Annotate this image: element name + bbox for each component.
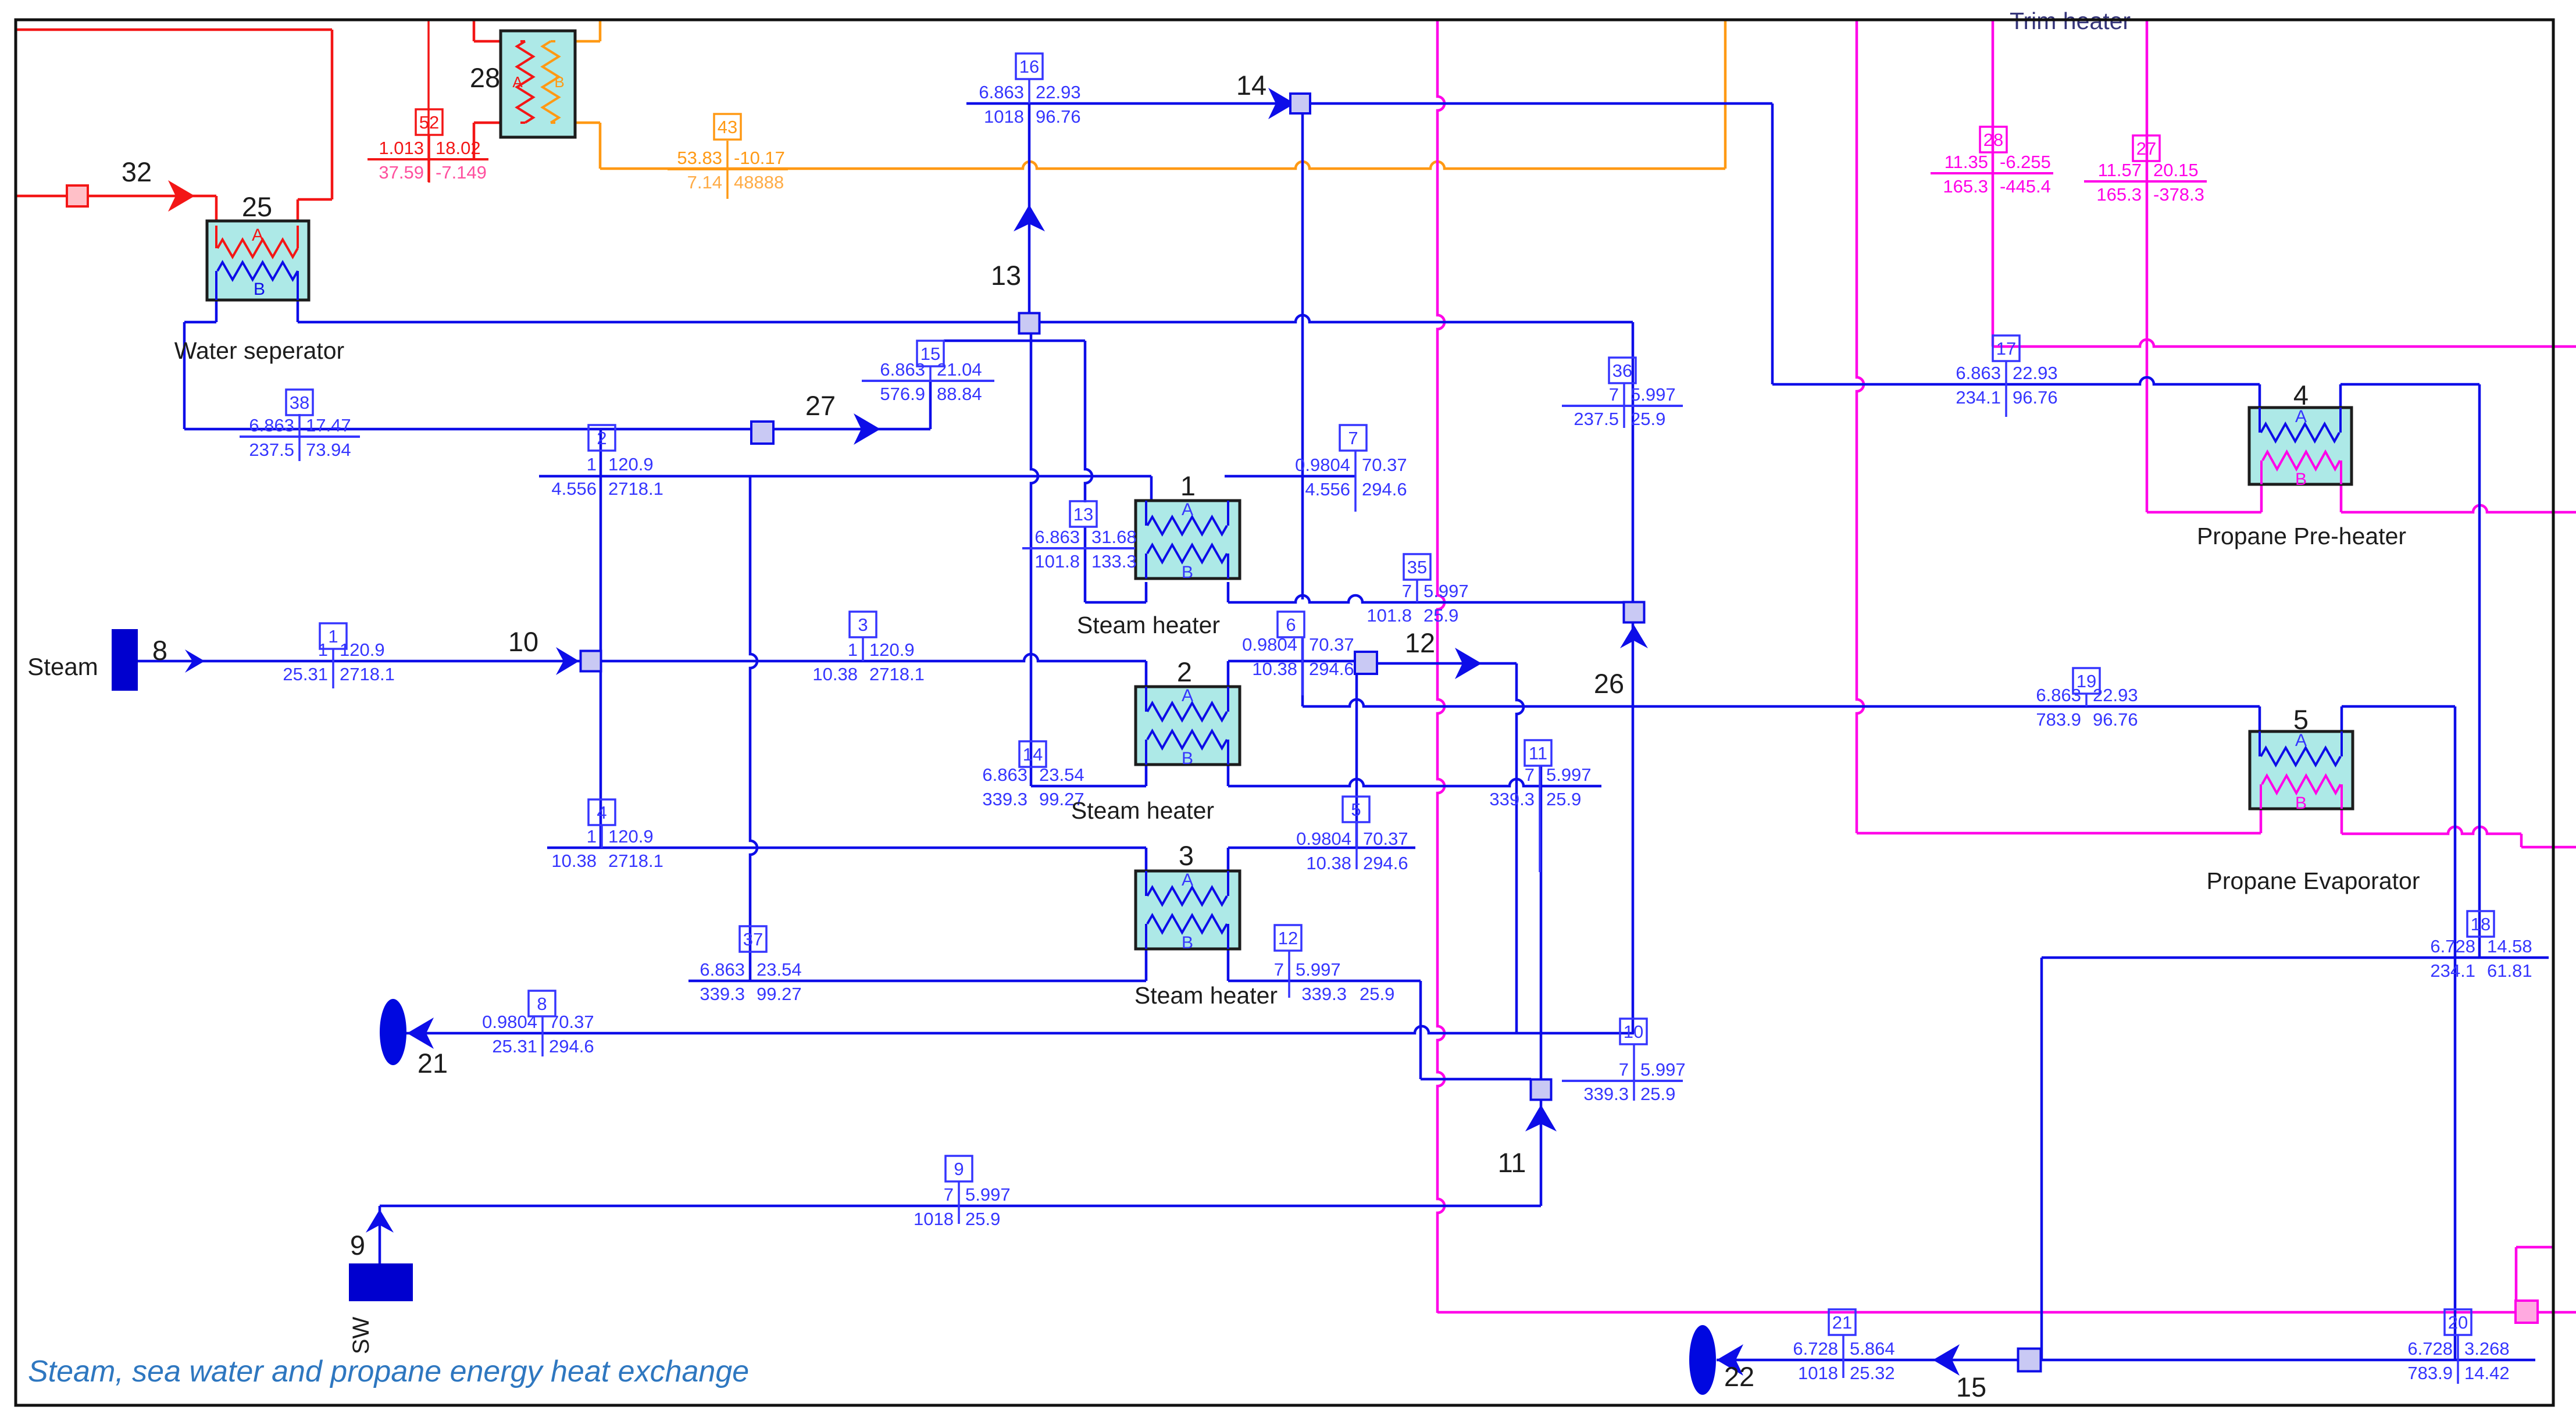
svg-text:Propane Evaporator: Propane Evaporator — [2207, 867, 2420, 894]
svg-text:SW: SW — [348, 1317, 374, 1355]
svg-text:16: 16 — [1019, 56, 1039, 77]
svg-text:4.556: 4.556 — [551, 479, 597, 499]
svg-text:B: B — [1182, 933, 1193, 952]
svg-text:5: 5 — [1351, 799, 1361, 820]
svg-text:234.1: 234.1 — [1956, 387, 2001, 408]
svg-text:6: 6 — [1286, 615, 1296, 635]
svg-text:294.6: 294.6 — [1309, 659, 1354, 679]
svg-text:1018: 1018 — [984, 106, 1024, 127]
svg-text:27: 27 — [2136, 138, 2156, 159]
svg-text:339.3: 339.3 — [982, 789, 1027, 809]
svg-text:-6.255: -6.255 — [2000, 152, 2051, 172]
svg-text:25.9: 25.9 — [1630, 409, 1665, 429]
svg-text:1: 1 — [848, 640, 858, 660]
svg-text:52: 52 — [419, 112, 439, 133]
svg-text:234.1: 234.1 — [2430, 961, 2475, 981]
svg-text:5.997: 5.997 — [1423, 581, 1469, 601]
svg-text:48888: 48888 — [734, 172, 784, 192]
svg-text:8: 8 — [537, 994, 547, 1014]
svg-text:37.59: 37.59 — [379, 162, 424, 183]
svg-text:20: 20 — [2448, 1312, 2468, 1333]
svg-text:14.42: 14.42 — [2464, 1363, 2510, 1383]
svg-text:Steam heater: Steam heater — [1077, 612, 1220, 638]
svg-text:2: 2 — [1177, 656, 1192, 687]
svg-text:2718.1: 2718.1 — [340, 664, 395, 684]
svg-text:6.728: 6.728 — [1793, 1338, 1838, 1359]
svg-text:6.863: 6.863 — [1956, 363, 2001, 383]
svg-text:70.37: 70.37 — [549, 1012, 594, 1032]
svg-text:294.6: 294.6 — [1363, 853, 1408, 873]
svg-text:11: 11 — [1498, 1147, 1526, 1178]
svg-text:31.68: 31.68 — [1091, 527, 1137, 547]
svg-text:7: 7 — [1274, 959, 1284, 980]
svg-text:4.556: 4.556 — [1305, 479, 1350, 499]
svg-text:Steam heater: Steam heater — [1134, 982, 1278, 1009]
svg-text:61.81: 61.81 — [2487, 961, 2532, 981]
svg-text:Water seperator: Water seperator — [174, 337, 344, 364]
svg-text:339.3: 339.3 — [1301, 984, 1347, 1004]
svg-text:5.997: 5.997 — [1640, 1059, 1686, 1080]
svg-text:96.76: 96.76 — [1036, 106, 1081, 127]
svg-text:17.47: 17.47 — [306, 415, 351, 435]
svg-text:4: 4 — [597, 802, 606, 823]
svg-text:120.9: 120.9 — [608, 454, 654, 474]
svg-text:-10.17: -10.17 — [734, 148, 785, 168]
svg-text:23.54: 23.54 — [757, 959, 802, 980]
svg-text:A: A — [1182, 686, 1193, 705]
svg-text:0.9804: 0.9804 — [1296, 829, 1351, 849]
svg-text:6.863: 6.863 — [1034, 527, 1080, 547]
svg-text:25.9: 25.9 — [965, 1209, 1000, 1229]
svg-text:25.9: 25.9 — [1546, 789, 1581, 809]
svg-text:2718.1: 2718.1 — [608, 851, 663, 871]
svg-text:A: A — [1182, 500, 1193, 519]
svg-text:18.02: 18.02 — [436, 138, 481, 158]
svg-text:Steam heater: Steam heater — [1071, 797, 1214, 824]
svg-text:14.58: 14.58 — [2487, 936, 2532, 956]
svg-text:-7.149: -7.149 — [436, 162, 487, 183]
svg-text:7.14: 7.14 — [687, 172, 722, 192]
svg-text:-445.4: -445.4 — [2000, 176, 2051, 197]
svg-text:B: B — [254, 280, 265, 299]
svg-text:-378.3: -378.3 — [2153, 184, 2204, 205]
svg-text:13: 13 — [1073, 504, 1093, 524]
svg-text:165.3: 165.3 — [2096, 184, 2142, 205]
svg-text:9: 9 — [350, 1230, 365, 1261]
svg-text:B: B — [2295, 794, 2307, 813]
svg-text:6.863: 6.863 — [880, 359, 925, 380]
svg-text:3: 3 — [1179, 840, 1194, 871]
svg-text:120.9: 120.9 — [869, 640, 915, 660]
svg-text:27: 27 — [805, 390, 836, 421]
svg-text:43: 43 — [718, 117, 737, 137]
svg-text:2718.1: 2718.1 — [869, 664, 925, 684]
svg-text:7: 7 — [1609, 384, 1619, 405]
svg-text:20.15: 20.15 — [2153, 160, 2199, 180]
svg-text:294.6: 294.6 — [1362, 479, 1407, 499]
svg-text:0.9804: 0.9804 — [1295, 455, 1350, 475]
svg-text:7: 7 — [1525, 765, 1535, 785]
svg-text:1018: 1018 — [914, 1209, 954, 1229]
svg-text:25.31: 25.31 — [283, 664, 328, 684]
svg-text:7: 7 — [944, 1184, 954, 1205]
svg-text:101.8: 101.8 — [1367, 605, 1412, 626]
svg-text:339.3: 339.3 — [1583, 1084, 1629, 1104]
svg-text:25.9: 25.9 — [1423, 605, 1458, 626]
svg-text:70.37: 70.37 — [1309, 634, 1354, 655]
svg-text:23.54: 23.54 — [1039, 765, 1084, 785]
svg-text:1018: 1018 — [1798, 1363, 1838, 1383]
svg-text:A: A — [1182, 870, 1193, 890]
svg-text:6.728: 6.728 — [2430, 936, 2475, 956]
svg-text:6.728: 6.728 — [2407, 1338, 2453, 1359]
svg-text:70.37: 70.37 — [1363, 829, 1408, 849]
svg-text:783.9: 783.9 — [2036, 709, 2081, 730]
svg-text:6.863: 6.863 — [700, 959, 745, 980]
svg-text:28: 28 — [470, 62, 500, 93]
svg-text:7: 7 — [1348, 428, 1358, 448]
svg-text:6.863: 6.863 — [2036, 685, 2081, 705]
svg-text:88.84: 88.84 — [937, 384, 982, 404]
svg-text:6.863: 6.863 — [982, 765, 1027, 785]
svg-text:25.31: 25.31 — [492, 1036, 537, 1056]
svg-text:1: 1 — [587, 454, 597, 474]
svg-text:A: A — [512, 73, 523, 91]
svg-text:165.3: 165.3 — [1943, 176, 1988, 197]
svg-text:12: 12 — [1405, 627, 1435, 658]
svg-text:22: 22 — [1724, 1361, 1754, 1392]
svg-text:3.268: 3.268 — [2464, 1338, 2510, 1359]
svg-text:10.38: 10.38 — [1252, 659, 1297, 679]
svg-text:7: 7 — [1402, 581, 1412, 601]
svg-text:12: 12 — [1278, 928, 1298, 948]
svg-text:Steam, sea water and propane e: Steam, sea water and propane energy heat… — [28, 1355, 749, 1388]
svg-text:70.37: 70.37 — [1362, 455, 1407, 475]
svg-text:25: 25 — [242, 191, 272, 222]
svg-text:7: 7 — [1619, 1059, 1629, 1080]
svg-text:25.32: 25.32 — [1850, 1363, 1895, 1383]
svg-text:25.9: 25.9 — [1360, 984, 1394, 1004]
svg-text:576.9: 576.9 — [880, 384, 925, 404]
svg-text:28: 28 — [1983, 130, 2003, 150]
svg-text:32: 32 — [122, 156, 152, 187]
svg-text:1: 1 — [587, 826, 597, 847]
svg-text:B: B — [1182, 749, 1193, 768]
svg-text:96.76: 96.76 — [2013, 387, 2058, 408]
svg-text:5.997: 5.997 — [1630, 384, 1676, 405]
svg-text:10.38: 10.38 — [812, 664, 858, 684]
svg-text:10.38: 10.38 — [1306, 853, 1351, 873]
svg-text:26: 26 — [1594, 668, 1624, 699]
svg-text:21: 21 — [1832, 1312, 1852, 1333]
svg-text:B: B — [1182, 563, 1193, 582]
svg-text:14: 14 — [1023, 744, 1043, 765]
svg-text:3: 3 — [858, 615, 868, 635]
svg-text:8: 8 — [152, 635, 167, 666]
svg-text:339.3: 339.3 — [1489, 789, 1535, 809]
svg-text:13: 13 — [991, 260, 1021, 291]
svg-text:25.9: 25.9 — [1640, 1084, 1675, 1104]
svg-text:53.83: 53.83 — [677, 148, 722, 168]
svg-text:73.94: 73.94 — [306, 440, 351, 460]
svg-text:120.9: 120.9 — [608, 826, 654, 847]
svg-text:120.9: 120.9 — [340, 640, 385, 660]
svg-text:5.864: 5.864 — [1850, 1338, 1895, 1359]
svg-text:B: B — [554, 73, 564, 91]
svg-text:35: 35 — [1407, 557, 1427, 577]
svg-text:37: 37 — [743, 929, 763, 949]
svg-text:1: 1 — [1180, 470, 1196, 501]
svg-text:339.3: 339.3 — [700, 984, 745, 1004]
svg-text:22.93: 22.93 — [2013, 363, 2058, 383]
svg-text:11: 11 — [1529, 743, 1547, 763]
svg-text:21.04: 21.04 — [937, 359, 982, 380]
svg-text:14: 14 — [1236, 70, 1266, 101]
svg-text:5.997: 5.997 — [1296, 959, 1341, 980]
svg-text:21: 21 — [418, 1048, 448, 1079]
svg-text:1: 1 — [328, 626, 338, 647]
svg-text:6.863: 6.863 — [979, 82, 1024, 102]
svg-text:Steam: Steam — [27, 653, 98, 680]
svg-text:6.863: 6.863 — [249, 415, 294, 435]
svg-text:5.997: 5.997 — [965, 1184, 1011, 1205]
svg-text:1: 1 — [318, 640, 328, 660]
svg-text:0.9804: 0.9804 — [482, 1012, 537, 1032]
svg-text:10: 10 — [508, 626, 538, 657]
svg-text:11.35: 11.35 — [1945, 152, 1988, 172]
svg-text:0.9804: 0.9804 — [1242, 634, 1297, 655]
svg-text:10.38: 10.38 — [551, 851, 597, 871]
svg-text:1.013: 1.013 — [379, 138, 424, 158]
svg-text:101.8: 101.8 — [1034, 551, 1080, 572]
svg-text:9: 9 — [954, 1159, 964, 1179]
svg-text:237.5: 237.5 — [1574, 409, 1619, 429]
svg-text:11.57: 11.57 — [2098, 160, 2142, 180]
svg-text:36: 36 — [1612, 360, 1632, 381]
svg-text:17: 17 — [1996, 338, 2016, 359]
svg-text:B: B — [2295, 470, 2307, 489]
svg-text:96.76: 96.76 — [2093, 709, 2138, 730]
svg-text:15: 15 — [1956, 1372, 1986, 1402]
svg-text:Propane Pre-heater: Propane Pre-heater — [2197, 523, 2406, 549]
svg-text:18: 18 — [2471, 914, 2491, 934]
svg-text:5.997: 5.997 — [1546, 765, 1592, 785]
svg-text:A: A — [252, 226, 263, 245]
svg-text:133.3: 133.3 — [1091, 551, 1137, 572]
svg-text:5: 5 — [2293, 704, 2309, 735]
svg-text:783.9: 783.9 — [2407, 1363, 2453, 1383]
svg-text:38: 38 — [290, 392, 309, 413]
svg-text:22.93: 22.93 — [1036, 82, 1081, 102]
svg-text:2718.1: 2718.1 — [608, 479, 663, 499]
svg-text:4: 4 — [2293, 380, 2309, 410]
svg-text:10: 10 — [1624, 1022, 1643, 1042]
svg-text:99.27: 99.27 — [757, 984, 802, 1004]
svg-text:22.93: 22.93 — [2093, 685, 2138, 705]
svg-text:237.5: 237.5 — [249, 440, 294, 460]
svg-text:294.6: 294.6 — [549, 1036, 594, 1056]
svg-text:2: 2 — [597, 428, 606, 448]
